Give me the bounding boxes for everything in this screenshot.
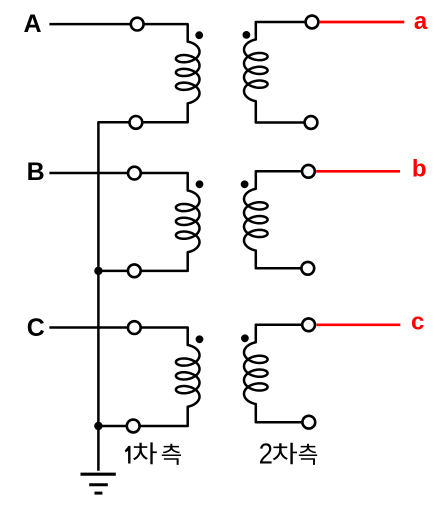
terminal circle A primary top — [131, 18, 144, 31]
terminal circle b secondary bottom — [301, 262, 314, 275]
terminal circle B primary top — [128, 167, 141, 180]
terminal circle c secondary top — [302, 318, 315, 331]
svg-text:a: a — [414, 8, 428, 35]
polarity dot secondary c — [241, 334, 249, 342]
svg-text:c: c — [411, 309, 424, 336]
terminal circle b secondary top — [302, 165, 315, 178]
wire secondary output b (red) — [316, 170, 400, 173]
terminal circle a secondary bottom — [305, 116, 318, 129]
terminal circle C primary bottom — [127, 420, 140, 433]
ground — [81, 474, 116, 493]
terminal circle c secondary bottom — [302, 416, 315, 429]
secondary winding coil b with leads — [244, 171, 308, 268]
label 2차측 (secondary side) — [260, 443, 317, 465]
secondary winding coil c with leads — [244, 325, 309, 422]
wire phase C with primary winding coil C — [49, 328, 199, 427]
svg-text:b: b — [412, 155, 427, 182]
svg-text:C: C — [27, 314, 45, 342]
junction node neutral-C — [94, 422, 102, 430]
terminal circle A primary bottom — [130, 116, 143, 129]
wire phase A with primary winding coil A — [49, 24, 199, 471]
junction node neutral-B — [94, 267, 102, 275]
polarity dot primary B — [196, 180, 204, 188]
label 1차측 (primary side) — [125, 442, 181, 465]
svg-text:B: B — [27, 158, 45, 186]
terminal circle a secondary top — [306, 16, 319, 29]
svg-text:A: A — [24, 10, 42, 38]
wire phase B with primary winding coil B — [49, 173, 199, 271]
polarity dot primary A — [195, 31, 203, 39]
polarity dot primary C — [196, 335, 204, 343]
wire secondary output c (red) — [317, 323, 401, 326]
terminal circle B primary bottom — [128, 264, 141, 277]
polarity dot secondary a — [243, 31, 251, 39]
secondary winding coil a with leads — [244, 22, 312, 123]
polarity dot secondary b — [241, 180, 249, 188]
terminal circle C primary top — [128, 321, 141, 334]
wire secondary output a (red) — [320, 21, 405, 24]
